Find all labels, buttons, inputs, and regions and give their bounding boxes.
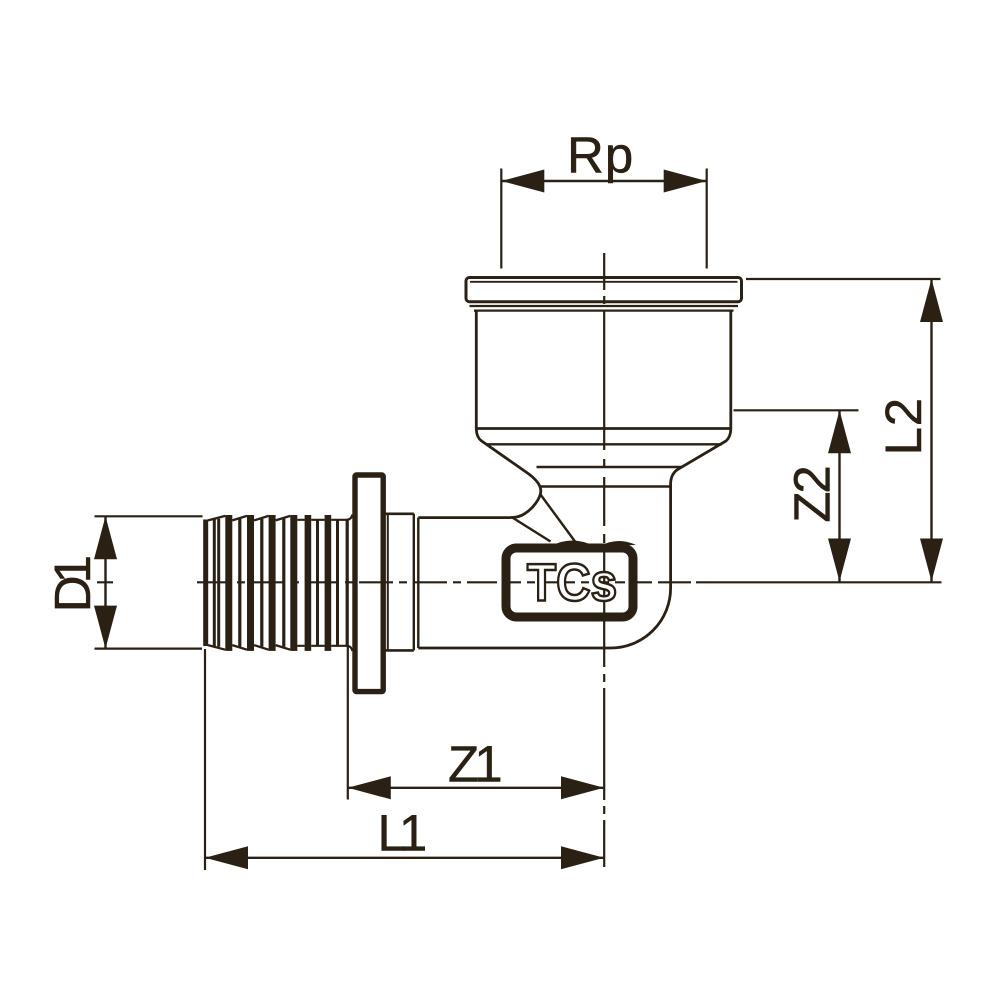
L1 arrows	[205, 846, 248, 869]
Z1 dimension line	[348, 787, 604, 789]
barbed ribs group	[203, 515, 349, 651]
L1 extension line	[204, 649, 206, 870]
L2 arrows	[920, 279, 943, 322]
box left edge bulge	[502, 556, 509, 600]
TCs text	[527, 552, 617, 612]
step line 1	[413, 514, 415, 651]
D1 extension lines	[95, 515, 203, 517]
thread cap (top female port collar)	[466, 278, 742, 302]
neck line under cap 2	[474, 310, 734, 312]
TCs label box	[502, 541, 636, 622]
rib bottom edge segments	[297, 646, 352, 651]
funnel section line 1	[475, 427, 732, 430]
box bottom-left bulge	[505, 601, 520, 621]
dimensions	[95, 169, 941, 871]
rib top edge segments	[297, 515, 352, 520]
thin ring lines left	[213, 519, 216, 647]
barb bar 4	[290, 515, 297, 651]
rib left end bar	[203, 520, 208, 647]
Rp extension lines	[500, 169, 502, 269]
centerline horizontal	[97, 253, 942, 867]
sleeve neck top edge	[386, 512, 414, 515]
svg-text:L1: L1	[378, 805, 425, 862]
barb bar 3	[269, 515, 276, 651]
barb bar 2	[247, 515, 254, 651]
thread cap inner chamfer line	[470, 281, 738, 283]
Z2 arrows	[828, 410, 851, 453]
Rp dimension line	[501, 180, 706, 182]
funnel section line 2	[486, 443, 722, 445]
box frame	[506, 548, 633, 617]
centerline vertical	[603, 253, 605, 867]
svg-text:TCs: TCs	[527, 552, 617, 612]
L2 extension line	[746, 278, 941, 280]
Z1 arrows	[348, 776, 391, 799]
D1 dimension line	[104, 516, 106, 648]
svg-text:Z2: Z2	[783, 467, 840, 522]
L2 dimension line	[930, 279, 932, 582]
dimension labels	[44, 127, 932, 862]
neck line under cap 1	[470, 305, 739, 307]
Z1 extension line	[347, 647, 349, 800]
port body left side	[475, 311, 478, 430]
svg-text:Z1: Z1	[448, 736, 500, 793]
L1 dimension line	[205, 857, 604, 859]
port body right side	[729, 311, 732, 430]
sleeve neck bottom edge	[386, 649, 414, 652]
svg-text:D1: D1	[44, 557, 101, 612]
svg-text:L2: L2	[875, 397, 932, 455]
funnel section line 4	[540, 485, 672, 487]
tall square ring 1	[305, 515, 312, 651]
funnel left edge + knuckle + pipe top edge	[418, 429, 541, 518]
funnel right edge + elbow outer corner + pipe bottom edge	[418, 429, 731, 648]
D1 arrows	[94, 516, 117, 559]
step line 2	[417, 518, 419, 648]
cone intersection diagonal A	[513, 518, 551, 542]
tall square ring 2	[325, 515, 332, 651]
svg-text:Rp: Rp	[567, 127, 634, 184]
barb bar 1	[225, 515, 232, 651]
thin ring lines right	[316, 519, 319, 647]
barb top ramps	[208, 516, 290, 521]
cone intersection diagonal B	[541, 495, 577, 544]
Z2 extension line	[734, 409, 859, 411]
box top bump right	[600, 541, 636, 546]
Rp arrows	[501, 170, 544, 193]
Z2 dimension line	[838, 410, 840, 581]
barb bottom ramps	[208, 645, 290, 650]
box top bump left	[551, 541, 594, 547]
funnel section line 3	[537, 466, 683, 468]
flange	[355, 475, 383, 692]
joint line near flange	[387, 514, 389, 651]
